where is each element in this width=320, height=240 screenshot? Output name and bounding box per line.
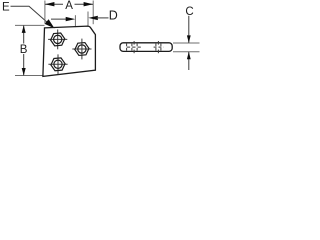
- svg-text:B: B: [20, 44, 28, 56]
- dim C bottom extension line: [173, 51, 200, 53]
- nut hole 3 (bottom): crosshair: [57, 54, 59, 74]
- dim C bottom arrowhead (points up): [187, 52, 191, 60]
- dim B line lower segment: [23, 54, 25, 75]
- nut hole 3: circle: [54, 60, 62, 68]
- dim A left extension line: [44, 1, 46, 24]
- dim A right arrowhead: [84, 2, 94, 6]
- dim B top extension line: [15, 24, 45, 26]
- side view hole 1 hidden wall left outer: [126, 44, 128, 51]
- background: [0, 0, 200, 81]
- plate outline (front view): [43, 26, 96, 76]
- side view hole 2 centerline ticks: [157, 41, 159, 45]
- dim B line upper segment: [23, 26, 25, 44]
- side view hole 2 hidden wall left: [155, 44, 157, 51]
- side view hole 1 hidden wall left: [131, 44, 133, 51]
- nut hole 2: circle: [78, 45, 86, 53]
- side view bar (pill outline): [120, 43, 172, 52]
- svg-text:A: A: [65, 0, 73, 12]
- dim D right lead line: [97, 17, 109, 19]
- nut hole 1: circle: [54, 35, 62, 43]
- nut hole 2 (right): crosshair: [81, 39, 83, 60]
- dim C upper line: [188, 16, 190, 43]
- side view hole 1 centerline ticks: [133, 41, 135, 45]
- side view hole 1 hidden wall right: [136, 44, 138, 51]
- dim B bottom arrowhead: [22, 68, 26, 76]
- nut hole 1 (top-left): crosshair: [57, 30, 59, 50]
- svg-text:E: E: [2, 2, 10, 14]
- svg-text:C: C: [185, 6, 193, 18]
- dim A line right segment: [75, 3, 94, 5]
- dim D right arrowhead (points left): [88, 16, 98, 20]
- dim D left arrowhead (points right): [66, 17, 76, 21]
- dim B bottom extension line: [15, 75, 43, 77]
- dim B top arrowhead: [22, 25, 26, 33]
- dim A line left segment: [45, 3, 63, 5]
- svg-text:D: D: [109, 8, 118, 22]
- dim D inner extension line: [74, 15, 76, 27]
- dim C lower line: [188, 52, 190, 70]
- dim A right extension line: [92, 1, 94, 25]
- dim A left arrowhead: [45, 2, 55, 6]
- side view hole 1 horizontal centerline dashes: [127, 46, 141, 48]
- dim D left lead line: [51, 18, 71, 20]
- side view hole 2 hidden wall right: [160, 44, 162, 51]
- side view hole 2 horizontal centerline dashes: [154, 46, 164, 48]
- nut hole 3: hexagon: [51, 58, 65, 71]
- dim C top arrowhead (points down): [187, 35, 191, 43]
- nut hole 2: hexagon: [75, 43, 89, 56]
- dim D corner extension line: [87, 12, 89, 27]
- dim C top extension line: [173, 42, 200, 44]
- leader E line: [11, 6, 49, 23]
- nut hole 1: hexagon: [51, 33, 65, 46]
- leader E arrowhead: [45, 19, 55, 28]
